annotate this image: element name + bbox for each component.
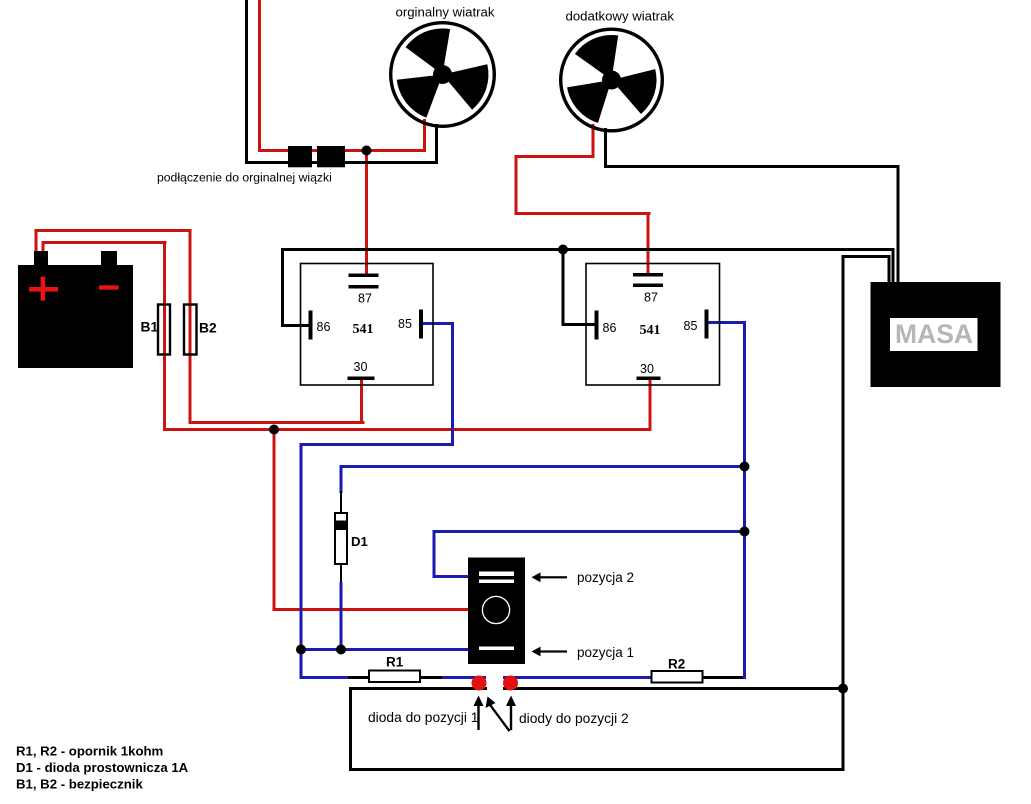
switch S1 body (468, 558, 525, 665)
wire: fan2 red horizontal to relay2 (515, 212, 651, 215)
svg-text:87: 87 (358, 292, 372, 306)
svg-text:541: 541 (640, 323, 661, 338)
wire: D1 net blue horizontal to relay2 net (340, 465, 747, 468)
battery minus symbol (99, 285, 119, 289)
fan M1 circle (391, 23, 495, 127)
battery body (18, 265, 133, 368)
wire: relay1 pin87 red feed (365, 149, 368, 276)
relay U1 pin86 bar (309, 311, 313, 340)
wire: bottom box bottom edge (349, 768, 844, 771)
svg-text:85: 85 (684, 319, 698, 333)
wire: relay2 pin30 red drop (649, 380, 652, 431)
wire: right trunk vertical (box to MASA) (842, 255, 845, 771)
wire: trunk vertical into MASA (888, 255, 891, 284)
wire: relay1 pin85 blue horizontal left (300, 443, 454, 446)
wire: relay1 pin86 vertical (281, 248, 284, 325)
junction dot blue bottom line D1 (336, 645, 346, 655)
svg-text:86: 86 (603, 321, 617, 335)
wire: red horizontal into switch common pin (273, 608, 471, 611)
wire: fan1 ground drop (435, 124, 438, 164)
wire: harness ground horizontal to fan1 (245, 161, 438, 164)
wire: R1 left black lead (348, 676, 370, 679)
svg-text:B1: B1 (141, 320, 159, 335)
wire: D1 black top lead (340, 491, 342, 514)
svg-text:86: 86 (317, 320, 331, 334)
junction dot blue D1 net (740, 462, 750, 472)
wire: red feed down to switch (273, 428, 276, 611)
svg-text:87: 87 (644, 291, 658, 305)
wire: bottom box left edge (349, 687, 352, 771)
wire: fan1 red drop (423, 119, 426, 152)
diode dot pozycja2 (red) (503, 676, 518, 691)
wire: fan2 red horizontal left (515, 155, 595, 158)
switch top contact bars (479, 572, 514, 577)
wire: relay2 pin85 blue vertical trunk (743, 321, 746, 679)
svg-text:dodatkowy wiatrak: dodatkowy wiatrak (566, 9, 675, 24)
svg-text:pozycja 2: pozycja 2 (577, 570, 634, 585)
battery plus symbol (29, 277, 58, 301)
wire: R1 right black lead (419, 676, 444, 679)
wire: B1 to relay2 pin30 horizontal (163, 428, 651, 431)
wire: trunk horizontal to MASA (842, 255, 891, 258)
svg-text:R1, R2 - opornik 1kohm: R1, R2 - opornik 1kohm (16, 744, 163, 759)
wire: relay1 pin30 red drop (360, 379, 363, 424)
relay U1 pin87 bars (349, 274, 379, 278)
wire: relay1 pin85 blue stub (422, 322, 454, 325)
wire: B2 red vertical below fuse (189, 355, 192, 424)
wire: R2 right black lead (701, 676, 746, 679)
svg-text:R1: R1 (386, 655, 404, 670)
switch center circle (482, 596, 509, 623)
svg-text:85: 85 (398, 317, 412, 331)
svg-text:podłączenie do orginalnej wiąz: podłączenie do orginalnej wiązki (157, 171, 332, 185)
wire: fan2 red drop (592, 124, 595, 158)
svg-text:MASA: MASA (895, 319, 973, 349)
wire: fan2 ground horizontal to MASA (604, 165, 899, 168)
relay U2 pin86 bar (595, 311, 599, 340)
pointer arrow diagonal to dots (486, 697, 496, 709)
MASA inner white panel (890, 318, 978, 351)
pointer arrow to dot2 (506, 696, 516, 707)
wire: relay2 pin87 red feed (647, 212, 650, 275)
wire: B1 red vertical top (163, 241, 166, 355)
fuse B2 (184, 305, 197, 355)
relay U1 box (301, 264, 434, 386)
wire: relay coil ground horizontal bus (281, 248, 894, 251)
svg-text:541: 541 (353, 322, 374, 337)
fan M2 blades (567, 35, 656, 123)
relay U2 box (586, 264, 720, 386)
wire: D1 blue bottom lead (340, 582, 343, 651)
battery terminal - (101, 251, 117, 267)
svg-text:R2: R2 (668, 657, 685, 672)
wire: bottom box top edge right part (503, 687, 844, 690)
junction dot on coil bus for relay2 (558, 245, 568, 255)
wire: battery+ outer red horizontal to B2 (35, 229, 192, 232)
svg-text:dioda do pozycji 1: dioda do pozycji 1 (368, 710, 478, 725)
diode D1 body (335, 513, 347, 564)
fan M1 blades (397, 28, 489, 117)
svg-text:D1: D1 (351, 534, 368, 549)
wire: relay1 pin86 horizontal stub (281, 324, 310, 327)
wire: pozycja2 blue vertical (433, 530, 436, 578)
wire: blue bottom pin line to switch (300, 648, 471, 651)
diode D1 cathode band (335, 521, 347, 531)
wire: blue segment R1 to diode dot1 (442, 676, 486, 679)
fan M2 circle (561, 29, 663, 131)
wire: pozycja2 blue horizontal (433, 530, 747, 533)
wire: blue segment dot2 to R2 (503, 676, 652, 679)
diode dot pozycja1 (red) (472, 676, 487, 691)
svg-text:D1 - dioda prostownicza 1A: D1 - dioda prostownicza 1A (16, 760, 189, 775)
junction dot box top right (838, 684, 848, 694)
pointer arrow to dot1 (474, 696, 484, 707)
relay U2 pin87 bars (633, 273, 663, 277)
junction dot blue pozycja2 net (740, 527, 750, 537)
svg-text:30: 30 (640, 362, 654, 376)
wire: harness +12V horizontal to fan1 (258, 149, 426, 152)
wire: blue lower horizontal to R1 (300, 676, 353, 679)
wire: fan2 red vertical mid (515, 155, 518, 215)
wire: D1 blue top lead (340, 465, 343, 493)
wire: harness ground vertical from top edge (245, 0, 248, 164)
wire: relay2 pin86 vertical branch (562, 248, 565, 325)
relay U1 pin30 bar (348, 377, 375, 381)
svg-text:orginalny wiatrak: orginalny wiatrak (396, 5, 495, 20)
arrow to pozycja 2 (532, 572, 541, 582)
svg-text:B2: B2 (199, 321, 217, 336)
wire: fan2 ground drop (604, 128, 607, 168)
connector block right half (317, 146, 345, 167)
wire: battery+ outer red up (35, 229, 38, 255)
wire: battery+ inner red horizontal to B1 (42, 241, 167, 244)
wire: fan2 ground vertical into MASA (897, 165, 900, 284)
svg-text:B1, B2 - bezpiecznik: B1, B2 - bezpiecznik (16, 777, 143, 792)
wire: B1 red vertical below fuse (163, 355, 166, 431)
wire: B2 to relay1 pin30 horizontal (189, 421, 365, 424)
svg-text:30: 30 (354, 360, 368, 374)
svg-text:pozycja 1: pozycja 1 (577, 645, 634, 660)
relay U2 pin85 bar (705, 310, 709, 339)
MASA ground block (871, 282, 1001, 387)
junction dot blue bottom line left (296, 645, 306, 655)
fuse B1 (158, 305, 170, 355)
resistor R2 (652, 671, 703, 683)
wire: relay1 pin85 blue vertical (451, 322, 454, 446)
wire: battery+ inner red up (42, 241, 45, 255)
junction dot on red B1 line (269, 425, 279, 435)
wire: relay2 pin86 horizontal stub (562, 323, 597, 326)
resistor R1 (369, 671, 420, 683)
battery terminal + (34, 251, 48, 267)
relay U2 pin30 bar (637, 377, 661, 381)
wire: D1 black bottom lead (340, 563, 342, 584)
wire: relay2 pin85 blue stub (708, 321, 746, 324)
svg-text:diody do pozycji 2: diody do pozycji 2 (519, 711, 629, 726)
wire: harness +12V vertical from top edge (258, 0, 261, 152)
wire: pozycja2 blue into switch (433, 575, 471, 578)
wire: coil bus vertical into MASA (892, 248, 895, 284)
switch bottom contact bar (479, 647, 514, 651)
arrow to pozycja 1 (532, 647, 541, 657)
wire: blue vertical to bottom line (300, 443, 303, 679)
junction dot on red harness line (362, 146, 372, 156)
wire: bottom box top edge left part (349, 687, 487, 690)
connector block left half (288, 146, 312, 167)
wire: B2 red vertical top (189, 229, 192, 355)
relay U1 pin85 bar (419, 310, 423, 339)
